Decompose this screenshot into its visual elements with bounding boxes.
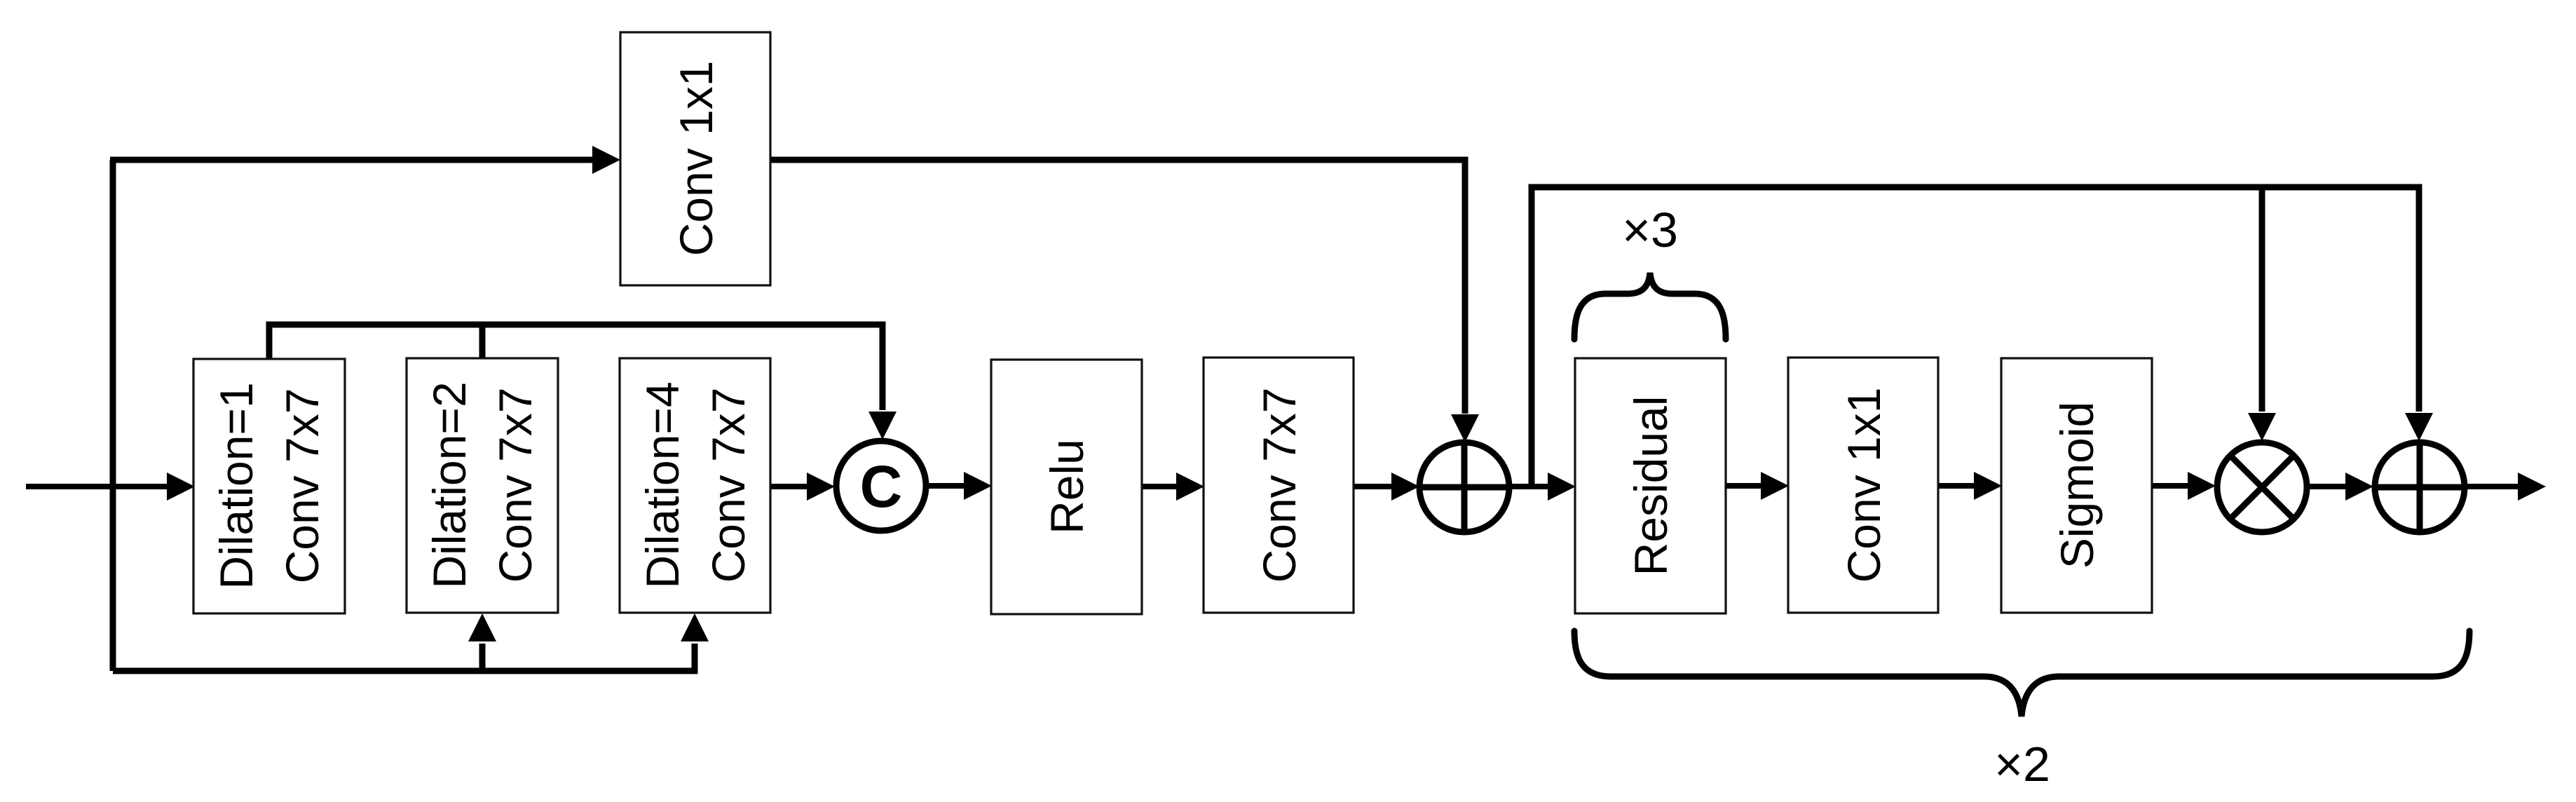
box Sigmoid [2001, 358, 2152, 613]
wire: drop into multiplier [2259, 187, 2265, 412]
brace x3 over Residual [1574, 273, 1726, 339]
arrowhead into Sigmoid [1974, 472, 2002, 500]
arrowhead into Dilation=1 box [167, 473, 195, 501]
wire: multiplier to adder 2 [2305, 484, 2345, 489]
box Conv 1x1 (attention branch) [1788, 358, 1938, 613]
wire: left trunk vertical [110, 160, 116, 671]
adder circle 2 (plus) [2375, 442, 2465, 532]
svg-text:Dilation=2: Dilation=2 [423, 381, 475, 588]
wire: skip riser after adder 1, top bus to multiplier and adder 2 [1532, 187, 2419, 487]
wire: Residual to Conv 1x1 [1726, 483, 1761, 489]
box Dilation=1 Conv 7x7 [193, 359, 345, 613]
arrowhead down into concat circle [868, 412, 897, 440]
svg-text:Conv 1x1: Conv 1x1 [670, 61, 722, 257]
arrowhead into concat circle [807, 473, 835, 501]
svg-text:Dilation=4: Dilation=4 [636, 381, 688, 588]
arrowhead into adder 1 [1391, 473, 1419, 501]
wire: Dilation=4 output to concat circle [770, 484, 807, 489]
adder 1 cross [1419, 442, 1509, 532]
arrowhead into Relu [964, 472, 992, 500]
svg-text:Dilation=1: Dilation=1 [210, 382, 262, 589]
svg-text:×3: ×3 [1622, 203, 1678, 257]
wire: Conv 7x7 to adder 1 [1354, 484, 1391, 489]
svg-text:Conv 7x7: Conv 7x7 [489, 388, 541, 583]
box Relu [991, 360, 1142, 614]
wire: Conv 1x1 to Sigmoid [1938, 483, 1975, 489]
arrowhead down into adder 1 [1451, 414, 1479, 442]
svg-text:Conv 7x7: Conv 7x7 [702, 388, 754, 583]
wire: riser into Dilation=2 bottom [479, 644, 486, 671]
svg-text:Conv 7x7: Conv 7x7 [276, 388, 328, 584]
box Conv 7x7 (main path) [1204, 358, 1354, 613]
arrowhead down into adder 2 [2405, 413, 2433, 441]
box Dilation=2 Conv 7x7 [407, 358, 558, 613]
wire: concat to Relu [927, 483, 965, 489]
wire: final output [2463, 484, 2519, 489]
concat circle C [836, 441, 926, 531]
svg-text:×2: ×2 [1994, 737, 2050, 791]
arrowhead into adder 2 [2345, 473, 2373, 501]
wire: Sigmoid to multiplier [2152, 483, 2188, 489]
multiplier circle (times) [2217, 442, 2307, 532]
wire: outputs of Dilation=1 and Dilation=2 up to concat bus [269, 325, 882, 410]
brace x2 under attention block [1574, 631, 2469, 716]
wire: Conv 1x1 output to first adder [770, 160, 1465, 414]
box Dilation=4 Conv 7x7 [620, 358, 770, 613]
wire: top skip to Conv 1x1 [110, 157, 593, 163]
adder 2 cross [2375, 442, 2465, 532]
multiplier diagonal cross [2230, 456, 2294, 519]
arrowhead up into Dilation=4 bottom [681, 613, 709, 641]
wire: Relu to Conv 7x7 [1142, 484, 1177, 489]
wire: adder 1 output to Residual [1508, 484, 1548, 489]
wire: input feed from left [26, 484, 171, 489]
arrowhead into multiplier [2188, 472, 2216, 500]
svg-text:Sigmoid: Sigmoid [2051, 402, 2103, 569]
box Conv 1x1 (top skip) [620, 32, 770, 285]
wire: bottom feed to Dilation=2 and Dilation=4 [113, 644, 695, 671]
arrowhead into Conv 1x1 [592, 146, 620, 174]
wire: riser from Dilation=2 top [479, 325, 486, 359]
svg-text:Relu: Relu [1041, 439, 1093, 534]
svg-text:Conv 1x1: Conv 1x1 [1838, 388, 1890, 583]
svg-text:Conv 7x7: Conv 7x7 [1253, 388, 1305, 583]
box Residual [1575, 358, 1726, 613]
arrowhead output [2518, 473, 2546, 501]
arrowhead down into multiplier [2248, 413, 2276, 441]
arrowhead into Residual [1548, 473, 1576, 501]
arrowhead into Conv 1x1 [1761, 472, 1789, 500]
svg-text:Residual: Residual [1625, 396, 1677, 576]
adder circle 1 (plus) [1419, 442, 1509, 532]
arrowhead up into Dilation=2 bottom [468, 613, 496, 641]
arrowhead into Conv 7x7 [1176, 473, 1204, 501]
svg-text:C: C [860, 454, 903, 519]
